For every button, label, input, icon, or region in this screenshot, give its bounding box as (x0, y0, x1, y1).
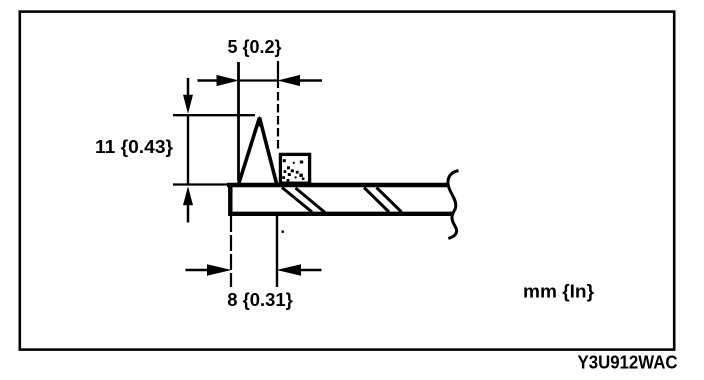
arrowhead pointing up at bottom extension (183, 186, 193, 205)
arrowhead pointing left at right extension (278, 75, 301, 86)
speckle fill dots inside square (282, 159, 304, 181)
arrowhead pointing right at left extension of 8 dim (207, 264, 232, 276)
extension line top of 11 dim (173, 114, 255, 116)
weld bead triangle apex cap (256, 116, 263, 127)
dimension line 5 right segment (295, 79, 322, 82)
svg-text:Y3U912WAC: Y3U912WAC (578, 353, 678, 373)
svg-text:mm {In}: mm {In} (523, 282, 594, 302)
dimension line 8 right segment (299, 269, 322, 272)
upper outside arrow stem of 11 dim (187, 78, 190, 96)
scan speck near right extension (282, 231, 284, 233)
extension line left of 5 dim (237, 62, 240, 181)
dimension line 11 vertical segment (187, 115, 189, 184)
hatch line pair 2 line A (364, 188, 389, 213)
dimension line 8 left segment (186, 269, 210, 272)
extension line right of 5 dim (dashed lower part) (277, 92, 279, 152)
dimension line 5 left segment (198, 79, 223, 82)
arrowhead pointing down at top extension (183, 95, 193, 114)
arrowhead pointing right at left extension (217, 75, 240, 86)
plate top edge (227, 183, 448, 188)
extension line right of 5 dim (solid upper part) (277, 61, 279, 88)
extension line right of 8 dim (276, 216, 278, 287)
backing block square (280, 154, 309, 183)
arrowhead pointing left at right extension of 8 dim (277, 264, 302, 276)
lower outside arrow stem of 11 dim (187, 204, 190, 223)
plate bottom edge (229, 212, 454, 216)
extension line bottom of 11 dim (173, 183, 228, 185)
dimension line 5 middle segment (239, 79, 279, 81)
weld bead triangle (239, 118, 277, 184)
hatch line pair 1 line A (282, 188, 312, 213)
plate break line (S-curve) (448, 171, 459, 239)
svg-text:11 {0.43}: 11 {0.43} (95, 137, 173, 157)
hatch line pair 1 line B (296, 188, 326, 213)
svg-text:5 {0.2}: 5 {0.2} (228, 37, 282, 57)
extension line left of 8 dim (230, 216, 232, 287)
hatch line pair 2 line B (377, 188, 402, 213)
svg-text:8 {0.31}: 8 {0.31} (227, 290, 293, 310)
plate left edge (228, 183, 232, 216)
